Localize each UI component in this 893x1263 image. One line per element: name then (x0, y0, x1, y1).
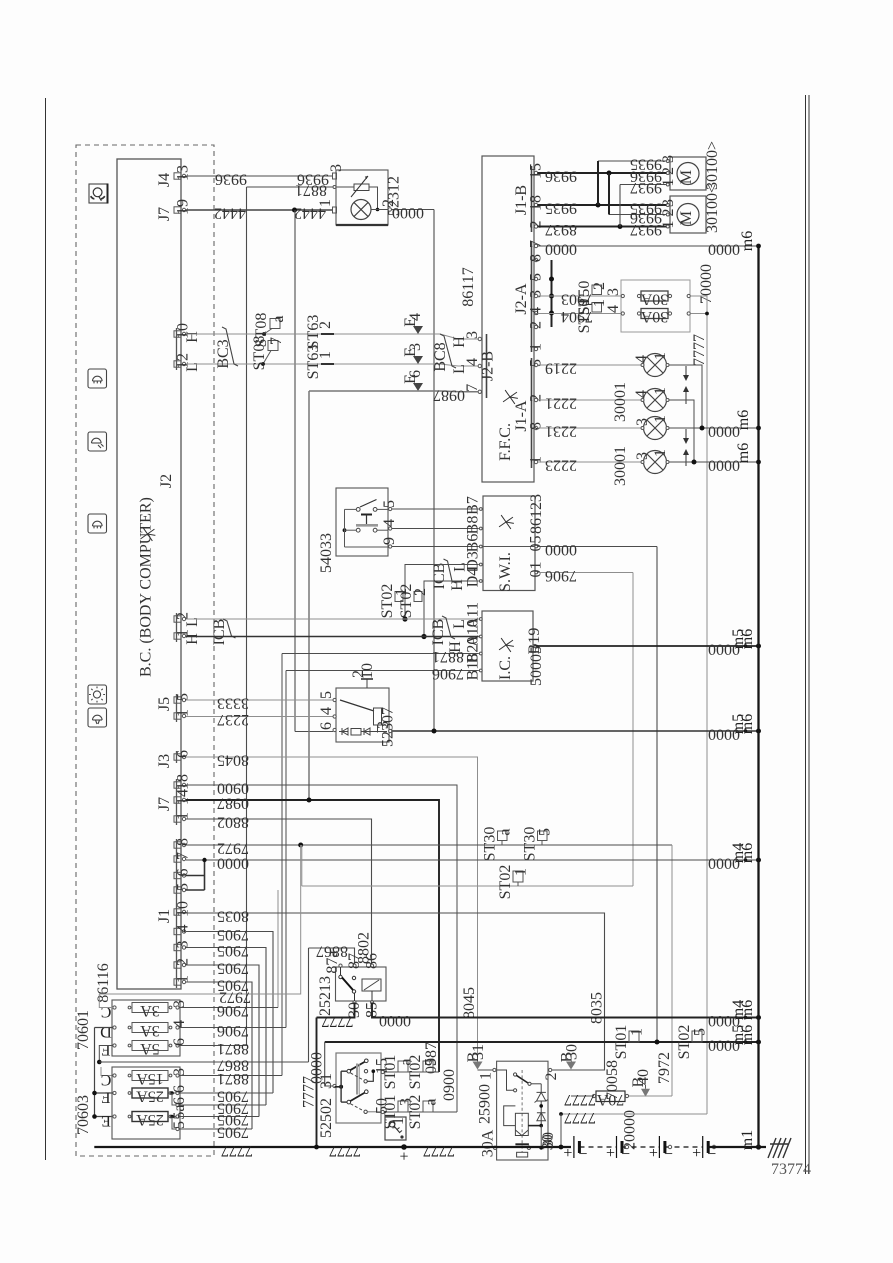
25900 sensor resistor below bus (517, 1152, 528, 1157)
wire 7777 from relay 30 (317, 1002, 355, 1017)
svg-text:0000: 0000 (545, 541, 577, 558)
svg-text:87a: 87a (324, 950, 341, 973)
svg-text:30: 30 (564, 1044, 581, 1060)
svg-text:B6: B6 (465, 534, 482, 553)
wire 9935 upper (598, 160, 667, 162)
wire 7905 output d (179, 1128, 252, 1130)
lamp tie riser right lower (669, 400, 694, 462)
link triangle E4 on H wire (413, 326, 423, 334)
F.F.C. J2-A pin 5 (534, 277, 537, 280)
link triangle B30 on flasher wire (566, 1062, 576, 1070)
wire 8871 fuse3 output (179, 1045, 247, 1047)
fuse 25A upper (132, 1088, 168, 1098)
svg-text:8: 8 (528, 254, 545, 262)
chassis ground symbol at m1 (768, 1138, 791, 1158)
52502 lower contact (351, 1104, 363, 1111)
wire 54033-5 to SWI B7 (392, 508, 479, 510)
wire 0000 lamp row3 to m6 (702, 427, 759, 429)
52502 pin 15 (381, 1070, 384, 1073)
svg-text:ST63: ST63 (305, 315, 322, 350)
connector bracket J1-A (531, 358, 533, 468)
B.C. pin 1 at y=716 (174, 713, 181, 719)
wire 2219 (538, 364, 644, 366)
F.F.C. J1-B pin 15 (534, 171, 537, 174)
wire 8035 (186, 913, 605, 1070)
switch BC8 at J2-B (440, 334, 456, 368)
wire 8871 70603 output (179, 1075, 282, 1077)
pin bracket pins 2-1 (176, 613, 178, 642)
battery cell 4 (702, 1136, 704, 1158)
B.C. pin 7 at y=859 (174, 856, 181, 862)
wire 7906 fuse1 output (179, 1007, 278, 1009)
svg-text:30: 30 (540, 1132, 557, 1148)
25213 pins top (339, 964, 342, 967)
svg-text:4: 4 (633, 355, 650, 363)
dashed boundary box of body computer B.C. (76, 145, 214, 1156)
connector ST30 a on 7972 (498, 831, 508, 841)
pin bracket J7 lower (176, 779, 178, 825)
svg-text:9936: 9936 (215, 171, 247, 188)
S.W.I. right pin 05 (535, 545, 538, 548)
52502 upper switch arm (347, 1069, 351, 1073)
actuator direction arrows (685, 366, 687, 380)
wire 8867 row (97, 1060, 102, 1065)
svg-text:J7: J7 (156, 797, 173, 811)
svg-text:73774: 73774 (771, 1161, 811, 1178)
supply riser D to 70603 F and E (94, 1028, 96, 1119)
svg-text:3: 3 (605, 288, 622, 296)
S.W.I. pin B8 (479, 527, 482, 530)
svg-text:0987: 0987 (423, 1042, 440, 1074)
wire 4442 from B.C. pin 19 (186, 209, 333, 211)
svg-text:1: 1 (652, 449, 669, 457)
B.C. pin 5 at y=890 (174, 887, 181, 893)
motor 30100 lower box (670, 196, 706, 233)
wire L to IC A11 (186, 618, 479, 620)
wire 0987 bold from pin 14 (186, 800, 439, 1072)
svg-text:2: 2 (412, 588, 429, 596)
54033 common wire (344, 509, 346, 547)
svg-text:1: 1 (513, 868, 530, 876)
svg-text:0000: 0000 (708, 241, 740, 258)
connector ST02 5 (423, 1061, 433, 1072)
link triangle E3 on L wire (413, 356, 423, 364)
25900 lower diode (537, 1113, 546, 1121)
vertical wire 0000 net riser (433, 210, 435, 732)
wire 0987 upper branch (309, 390, 478, 393)
svg-text:7: 7 (268, 337, 285, 345)
svg-text:ST02: ST02 (407, 1095, 424, 1130)
svg-text:J5: J5 (156, 697, 173, 711)
svg-text:3: 3 (407, 343, 424, 351)
svg-text:2: 2 (660, 209, 677, 217)
svg-text:3: 3 (660, 155, 677, 163)
wire 7904 (538, 313, 622, 315)
icon front fog lamp (88, 369, 107, 388)
F.F.C. J2-A pin 8 (534, 258, 537, 261)
crossover riser 9935 (597, 161, 599, 205)
svg-text:BC8: BC8 (432, 342, 449, 371)
wire 9936 lower (609, 214, 667, 216)
svg-text:30A: 30A (640, 308, 668, 325)
main ground bus m1 row (94, 1146, 571, 1148)
icon instrument lighting sun symbol (88, 685, 107, 704)
svg-text:8871: 8871 (217, 1070, 249, 1087)
page right border (805, 95, 807, 1174)
junction on wire 4442 (292, 208, 297, 213)
svg-text:0000: 0000 (545, 241, 577, 258)
ground lead of 70A fuse (571, 1095, 593, 1097)
connector ST08 lower (263, 351, 271, 365)
svg-text:25A: 25A (136, 1111, 164, 1128)
25213 pins bottom (353, 1001, 356, 1004)
vertical wire 0987 riser (308, 391, 310, 800)
F.F.C. J2-A pin 7 (534, 244, 537, 247)
B.C. pin 13 at y=176 (174, 173, 181, 179)
svg-text:M: M (678, 170, 695, 184)
wire 0000 from IC B19 to m6 (536, 645, 758, 647)
svg-text:5: 5 (528, 273, 545, 281)
pin bracket J2 pins 10-12 (176, 328, 178, 370)
svg-text:D: D (100, 1023, 112, 1040)
I.C. pin B20 (479, 652, 482, 655)
lamp symbol in 52312 (351, 200, 371, 220)
25900 pin 1 (493, 1068, 496, 1071)
svg-text:m6: m6 (739, 843, 756, 863)
connector ST50 1 (592, 303, 602, 313)
svg-text:a: a (270, 315, 287, 322)
wire SWI D4 tap to H (424, 581, 479, 637)
wire 7903 (538, 295, 622, 297)
B.C. pin 4 at y=931.5 (174, 928, 181, 934)
svg-text:2221: 2221 (545, 395, 577, 412)
wire 7905 pin 3 (186, 948, 266, 1106)
svg-text:9937: 9937 (630, 179, 662, 196)
svg-text:7972: 7972 (217, 840, 249, 857)
relay 25213 box (336, 967, 387, 1001)
svg-text:6: 6 (171, 1038, 188, 1046)
wire B31 to 25900 pin 1 (478, 1069, 493, 1071)
wire 2237 (186, 716, 335, 718)
svg-text:5: 5 (692, 1028, 709, 1036)
connector ST02 2 on tap (414, 592, 422, 602)
svg-text:1: 1 (390, 1117, 407, 1125)
svg-text:1: 1 (652, 352, 669, 360)
wire 0000 row to m6 with 52502 feed (325, 1041, 759, 1043)
svg-text:ST02: ST02 (407, 1055, 424, 1090)
svg-text:ST01: ST01 (382, 1055, 399, 1090)
pin bracket J1 (176, 839, 178, 988)
wire 7906 SWI 01 output (538, 572, 633, 574)
connector ST01 a (398, 1061, 408, 1072)
svg-text:7905: 7905 (217, 942, 249, 959)
svg-text:2223: 2223 (545, 457, 577, 474)
clock symbol S.W.I. (499, 515, 515, 529)
svg-text:3: 3 (528, 290, 545, 298)
svg-text:3: 3 (634, 418, 651, 426)
connector ST01 3 (398, 1101, 408, 1112)
svg-text:C: C (101, 1003, 112, 1020)
lamp 30001 row4 (644, 451, 667, 474)
wire 0000 from J2-A pin 7 to m6 (538, 245, 759, 247)
wire from pin 50 through ST01 ST02 (385, 1111, 458, 1113)
svg-text:ICB: ICB (211, 619, 228, 646)
F.F.C. J2-A pin 4 (534, 311, 537, 314)
motor 30100 upper box (670, 157, 706, 190)
riser 8867 (308, 948, 310, 1062)
svg-text:H: H (184, 331, 201, 343)
switch ICB at I.C. (442, 616, 455, 639)
connector ST01 on row 1042 (629, 1031, 639, 1042)
fuse 25A lower output fork (171, 1116, 178, 1118)
svg-text:C: C (101, 1071, 112, 1088)
wire 2223 (538, 461, 644, 463)
wire 8871 to IC B20 (282, 653, 479, 655)
svg-text:30100>: 30100> (704, 141, 721, 190)
riser 0000 to bottom (656, 547, 658, 1043)
svg-text:5: 5 (423, 1058, 440, 1066)
fuse 30A lower in 70000 (641, 309, 668, 319)
svg-text:2: 2 (528, 321, 545, 329)
wire 0000 from relay 85 to m6 (372, 1002, 759, 1017)
B.C. pin 3 at y=947.5 (174, 944, 181, 950)
clock symbol F.F.C. (503, 390, 519, 404)
svg-text:L: L (451, 364, 468, 374)
svg-text:+: + (399, 1148, 408, 1165)
svg-text:F: F (101, 1041, 110, 1058)
hook wire 70603 C (101, 1067, 113, 1076)
svg-text:52502: 52502 (318, 1098, 335, 1138)
svg-text:ST02: ST02 (676, 1025, 693, 1060)
svg-text:3A: 3A (140, 1022, 160, 1039)
splice ST63 on L wire (321, 363, 334, 365)
svg-text:m6: m6 (735, 410, 752, 430)
link triangle B31 (473, 1062, 483, 1070)
riser 8871 to fuse 70603 (281, 654, 283, 1076)
wire 7906 to IC B18 (286, 670, 479, 672)
svg-text:F.F.C.: F.F.C. (497, 423, 514, 461)
riser 7972 to fuse 70A row (628, 1095, 673, 1097)
svg-text:01: 01 (528, 562, 545, 578)
wire 7905 output b (179, 1104, 266, 1106)
switch ICB near B.C. pins (223, 619, 236, 638)
wire 7972 from pin 8 (186, 844, 672, 846)
svg-text:8035: 8035 (589, 992, 606, 1024)
svg-text:4: 4 (381, 519, 398, 527)
52307 pins (333, 698, 336, 701)
wire 0000 from pin 7 to m6 (186, 859, 759, 861)
svg-text:30001: 30001 (612, 446, 629, 486)
svg-text:M: M (678, 211, 695, 225)
svg-text:+: + (563, 1145, 572, 1162)
svg-text:ST63: ST63 (305, 345, 322, 380)
svg-text:m1: m1 (739, 1130, 756, 1150)
svg-text:B7: B7 (465, 496, 482, 515)
svg-text:8045: 8045 (461, 987, 478, 1019)
bus from battery to m1 ground (708, 1146, 767, 1148)
svg-text:0900: 0900 (441, 1069, 458, 1101)
svg-text:ST02: ST02 (497, 865, 514, 900)
wire at row 886 (302, 885, 633, 887)
battery interlinks dashed (580, 1146, 617, 1148)
wire 0000 lamp row4 to m6 (694, 461, 759, 463)
svg-text:1: 1 (629, 1028, 646, 1036)
rheostat in 52312 (354, 184, 369, 191)
F.F.C. J2-B pin 4 (478, 364, 481, 367)
svg-text:5A: 5A (140, 1040, 160, 1057)
svg-text:ST01: ST01 (613, 1025, 630, 1060)
lamp 30001 row3 (644, 417, 667, 440)
connector ST08 upper (264, 329, 272, 335)
svg-text:7777: 7777 (564, 1109, 596, 1126)
riser from 7972 junction to row 886 (301, 845, 303, 886)
wire 7905 pin 2 (186, 965, 259, 1117)
pin bracket J5 (176, 694, 178, 722)
52502 pin 31 (333, 1084, 336, 1087)
25900 coil (515, 1113, 528, 1135)
svg-text:1: 1 (660, 179, 677, 187)
svg-text:3: 3 (375, 721, 392, 729)
svg-text:05: 05 (528, 536, 545, 552)
svg-text:25213: 25213 (317, 976, 334, 1016)
svg-text:25A: 25A (136, 1088, 164, 1105)
svg-text:4: 4 (633, 390, 650, 398)
svg-text:70601: 70601 (75, 1010, 92, 1050)
svg-text:5: 5 (381, 500, 398, 508)
connector ST02 1 on tap (395, 592, 403, 602)
svg-text:7777: 7777 (423, 1142, 455, 1159)
svg-text:30001: 30001 (612, 382, 629, 422)
svg-text:70A: 70A (596, 1091, 624, 1108)
S.W.I. pin D4 (479, 580, 482, 583)
svg-text:86: 86 (364, 953, 381, 969)
svg-text:87: 87 (346, 953, 363, 969)
connector bracket J2-B (486, 334, 488, 398)
svg-text:1: 1 (660, 221, 677, 229)
B.C. pin 2 at y=965 (174, 962, 181, 968)
svg-text:1: 1 (317, 351, 334, 359)
svg-text:8045: 8045 (217, 752, 249, 769)
svg-text:54033: 54033 (318, 533, 335, 573)
tie of pins 5-6-7 (204, 860, 206, 890)
B.C. pin 6 at y=757 (174, 754, 181, 760)
fuse 15A (132, 1071, 168, 1081)
25900 internal relay (497, 1070, 513, 1090)
svg-text:0987: 0987 (217, 795, 249, 812)
svg-text:J1: J1 (156, 909, 173, 923)
I.C. pin B19 (533, 644, 536, 647)
wire SWI D3 tap to L (405, 565, 479, 620)
svg-text:I.C.: I.C. (497, 656, 514, 680)
flasher unit 25900 box (497, 1061, 548, 1160)
wire 7905 pin 4 (186, 932, 273, 1094)
svg-text:0000: 0000 (379, 1012, 411, 1029)
svg-text:−: − (578, 1146, 587, 1163)
svg-text:7906: 7906 (545, 567, 577, 584)
svg-text:7905: 7905 (217, 1124, 249, 1141)
clock symbol on B.C. (141, 527, 157, 541)
svg-text:25900: 25900 (477, 1084, 494, 1124)
svg-text:m6: m6 (739, 714, 756, 734)
wire 8871 to lamp unit (247, 186, 333, 188)
svg-text:1: 1 (528, 343, 545, 351)
tie strap pins 8-5-2 (551, 260, 553, 327)
F.F.C. J1-B pin 2 (534, 225, 537, 228)
ignition key symbol box (385, 1117, 406, 1140)
svg-text:7906: 7906 (217, 1022, 249, 1039)
svg-text:7: 7 (464, 384, 481, 392)
svg-text:2: 2 (317, 321, 334, 329)
B.C. pin 10 at y=334 (174, 331, 181, 337)
wire 8937 bold from pin 2 (538, 226, 667, 228)
25900 pin 2 (549, 1068, 552, 1071)
svg-text:7: 7 (528, 240, 545, 248)
svg-text:9936: 9936 (545, 168, 577, 185)
icon headlamp leveling (89, 184, 108, 203)
wire 7906 fuse2 output (179, 1027, 286, 1029)
svg-text:7906: 7906 (217, 1002, 249, 1019)
svg-text:6: 6 (407, 370, 424, 378)
S.W.I. pin D3 (479, 563, 482, 566)
svg-text:18: 18 (528, 195, 545, 211)
svg-text:70603: 70603 (75, 1095, 92, 1135)
icon parking lamp (88, 708, 107, 727)
S.W.I. pin B7 (479, 508, 482, 511)
F.F.C. J1-A pin 5 (534, 363, 537, 366)
wire 54033-9 to SWI B6 (392, 546, 479, 548)
switch BC3 (222, 327, 238, 366)
svg-text:3333: 3333 (217, 695, 249, 712)
I.C. pin B18 (479, 669, 482, 672)
svg-text:8871: 8871 (217, 1040, 249, 1057)
svg-text:8035: 8035 (217, 908, 249, 925)
52312 pin pads (333, 173, 337, 179)
svg-text:a: a (423, 1098, 440, 1105)
svg-text:7777: 7777 (221, 1142, 253, 1159)
wire 8045 (186, 757, 478, 1061)
svg-text:7905: 7905 (217, 960, 249, 977)
54033 lower contact pair (343, 528, 347, 532)
svg-text:H: H (184, 633, 201, 645)
svg-text:86117: 86117 (460, 267, 477, 306)
lamp tie riser right upper (669, 365, 702, 428)
F.F.C. J1-A pin 1 (534, 460, 537, 463)
52312 internal wires (337, 186, 355, 188)
I.C. pin A11 (479, 618, 482, 621)
riser 7777 bold (316, 1018, 318, 1148)
instrument cluster I.C. 50005 box (482, 611, 533, 681)
fuse 30A upper in 70000 (641, 291, 668, 301)
riser 886 area to fuse 70601 pin 3 (277, 890, 279, 1008)
wire 9936 bold (538, 172, 667, 174)
vertical wire 8871 riser (246, 187, 248, 1046)
svg-text:1: 1 (317, 199, 334, 207)
fuse 25A upper output fork (171, 1092, 178, 1094)
clock symbol I.C. (499, 638, 515, 652)
wire 9937 upper (620, 184, 667, 186)
52502 upper contact (351, 1073, 363, 1080)
svg-text:2231: 2231 (545, 423, 577, 440)
svg-text:J3: J3 (156, 754, 173, 768)
connector ST30 b on 7972 (538, 831, 548, 841)
B.C. pin 1 at y=819 (174, 816, 181, 822)
svg-text:m6: m6 (739, 231, 756, 251)
switch unit 54033 box (336, 488, 388, 556)
svg-text:H: H (451, 336, 468, 348)
svg-text:B8: B8 (465, 516, 482, 535)
svg-text:2: 2 (660, 167, 677, 175)
svg-text:5: 5 (528, 359, 545, 367)
